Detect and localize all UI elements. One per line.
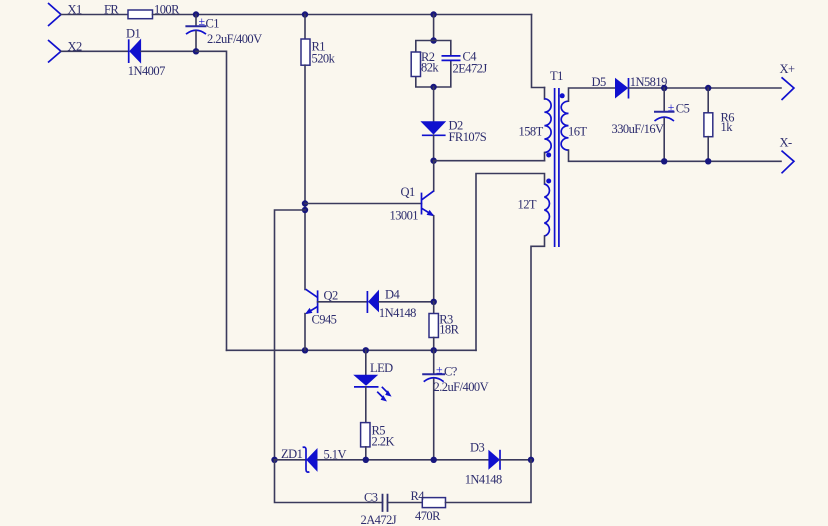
wire R6 bottom lead: [707, 137, 709, 162]
wire mid rail: [227, 349, 477, 351]
wire feedback branch left and down: [275, 210, 306, 460]
svg-text:13001: 13001: [390, 208, 419, 222]
capacitor C4: [442, 56, 461, 61]
wire D2 to node: [433, 135, 435, 160]
transistor Q1: [422, 191, 435, 216]
wire FR to node: [153, 14, 197, 16]
svg-text:X-: X-: [780, 135, 792, 149]
wire node to primary bottom: [434, 160, 545, 162]
wire rail drop to T1 primary top: [532, 15, 545, 88]
node secondary polarity dot: [560, 93, 565, 98]
capacitor C7: [422, 374, 445, 460]
node C5 top: [661, 85, 667, 91]
wire bottom loop left: [275, 460, 383, 503]
wire C1 node to left drop: [196, 51, 227, 350]
svg-text:D1: D1: [126, 26, 140, 40]
wire C3 to R4: [388, 502, 423, 504]
wire R4 to node: [446, 460, 532, 503]
wire R2C4 stem top: [433, 15, 435, 41]
wire R1 top: [304, 15, 306, 40]
svg-text:2E472J: 2E472J: [453, 61, 488, 75]
node 12T polarity dot: [546, 179, 551, 184]
resistor R1: [301, 39, 310, 65]
node LED top: [363, 347, 369, 353]
svg-text:1N4148: 1N4148: [379, 306, 416, 320]
node primary polarity dot: [546, 153, 551, 158]
node R6 bottom: [705, 158, 711, 164]
wire Q2 base to D4: [318, 301, 368, 303]
wire 12T drop: [476, 174, 545, 351]
wire R3 bottom: [433, 338, 435, 351]
node D4 R3: [431, 299, 437, 305]
resistor FR: [128, 10, 153, 19]
node R3 rail: [431, 347, 437, 353]
wire D1 to node: [141, 50, 196, 52]
wire R5 bottom: [365, 447, 367, 460]
resistor R4: [422, 498, 445, 508]
wire ZD1 to D3: [318, 459, 489, 461]
svg-text:C5: C5: [676, 102, 690, 116]
svg-text:FR107S: FR107S: [449, 130, 487, 144]
svg-text:1k: 1k: [721, 120, 734, 134]
wire 12T bottom lead: [531, 236, 545, 460]
svg-text:C945: C945: [312, 312, 337, 326]
diode D1: [129, 39, 141, 64]
resistor R5: [361, 423, 370, 447]
svg-text:±: ±: [668, 100, 675, 114]
svg-text:D3: D3: [470, 441, 484, 455]
terminal X plus: [782, 77, 794, 100]
svg-text:158T: 158T: [519, 124, 544, 138]
resistor R3: [429, 314, 438, 338]
node top R2C4: [430, 11, 436, 17]
wire D4 to node: [379, 301, 434, 303]
wire D3 to node: [500, 459, 531, 461]
svg-text:C3: C3: [364, 490, 378, 504]
transistor Q2: [305, 289, 318, 314]
svg-text:R4: R4: [411, 489, 426, 503]
svg-text:2A472J: 2A472J: [361, 513, 397, 526]
winding primary 158T: [544, 99, 551, 153]
wire X1 to FR: [61, 14, 128, 16]
svg-text:1N4148: 1N4148: [465, 472, 502, 486]
core T1: [555, 88, 559, 247]
wire R2C4 bracket: [416, 41, 451, 88]
svg-text:520k: 520k: [312, 52, 336, 66]
terminal X1: [48, 3, 61, 26]
wire Q1 base: [305, 203, 422, 205]
node R5 bottom rail: [363, 457, 369, 463]
svg-text:LED: LED: [370, 361, 393, 375]
svg-text:T1: T1: [550, 69, 563, 83]
diode D4: [367, 290, 379, 313]
svg-text:±: ±: [199, 14, 206, 28]
svg-text:330uF/16V: 330uF/16V: [612, 122, 665, 136]
wire node to ZD1: [275, 459, 307, 461]
svg-text:2.2K: 2.2K: [372, 434, 395, 448]
wire R2C4 to D2: [433, 87, 435, 121]
node D3 right: [528, 457, 534, 463]
LED: [353, 375, 391, 402]
svg-text:D5: D5: [592, 75, 606, 89]
capacitor C5: [654, 88, 675, 161]
node D2 bottom: [430, 158, 436, 164]
wire LED to R5: [365, 387, 367, 423]
node Q2 emitter rail: [302, 347, 308, 353]
svg-text:Q1: Q1: [401, 185, 415, 199]
diode D5: [615, 78, 629, 99]
svg-text:Q2: Q2: [324, 289, 338, 303]
node R2C4 bottom: [430, 84, 436, 90]
svg-text:470R: 470R: [415, 509, 441, 523]
svg-text:18R: 18R: [439, 322, 459, 336]
svg-text:16T: 16T: [568, 124, 587, 138]
wire secondary bottom lead: [569, 150, 782, 161]
node top C1: [193, 11, 199, 17]
wire R6 top lead: [707, 88, 709, 113]
resistor R2: [411, 52, 420, 77]
svg-text:C?: C?: [444, 364, 458, 378]
wire Q1 collector: [433, 161, 435, 191]
wire D5 to X plus: [629, 87, 782, 89]
node feedback rail left: [271, 457, 277, 463]
terminal X minus: [782, 151, 794, 174]
svg-text:FR: FR: [104, 3, 119, 17]
node C7 bottom rail: [431, 457, 437, 463]
capacitor C1: [185, 15, 206, 52]
wire secondary top lead: [569, 88, 616, 101]
wire R1 bottom to Q2 collector: [304, 65, 306, 289]
svg-text:±: ±: [436, 362, 443, 376]
svg-text:C1: C1: [206, 17, 220, 31]
capacitor C3: [383, 494, 388, 512]
wire C7 stem: [433, 350, 435, 373]
svg-text:2.2uF/400V: 2.2uF/400V: [434, 380, 489, 394]
node feedback branch: [302, 207, 308, 213]
wire LED stem: [365, 350, 367, 375]
winding secondary 16T: [561, 101, 568, 150]
wire top rail: [196, 14, 532, 16]
svg-text:X+: X+: [780, 62, 795, 76]
wire primary bottom lead: [544, 153, 546, 161]
wire primary top lead: [544, 88, 546, 100]
svg-text:2.2uF/400V: 2.2uF/400V: [207, 32, 262, 46]
diode D2: [420, 121, 446, 135]
node C1 bottom: [193, 48, 199, 54]
svg-text:ZD1: ZD1: [281, 447, 303, 461]
wire Q2 emitter down: [304, 314, 306, 351]
diode D3: [488, 450, 500, 470]
terminal X2: [48, 40, 61, 63]
svg-text:1N4007: 1N4007: [128, 64, 165, 78]
node C5 bottom: [661, 158, 667, 164]
wire Q1 emitter down: [433, 216, 435, 302]
resistor R6: [704, 113, 713, 137]
node Q1 base: [302, 200, 308, 206]
svg-text:82k: 82k: [421, 60, 439, 74]
zener ZD1: [303, 447, 318, 472]
node R6 top: [705, 85, 711, 91]
node top R1: [302, 11, 308, 17]
svg-text:D4: D4: [385, 288, 400, 302]
wire R3 top: [433, 302, 435, 314]
svg-text:12T: 12T: [518, 198, 537, 212]
winding 12T: [544, 184, 549, 236]
wire X2 to D1: [61, 50, 128, 52]
node R2C4 top: [430, 37, 436, 43]
